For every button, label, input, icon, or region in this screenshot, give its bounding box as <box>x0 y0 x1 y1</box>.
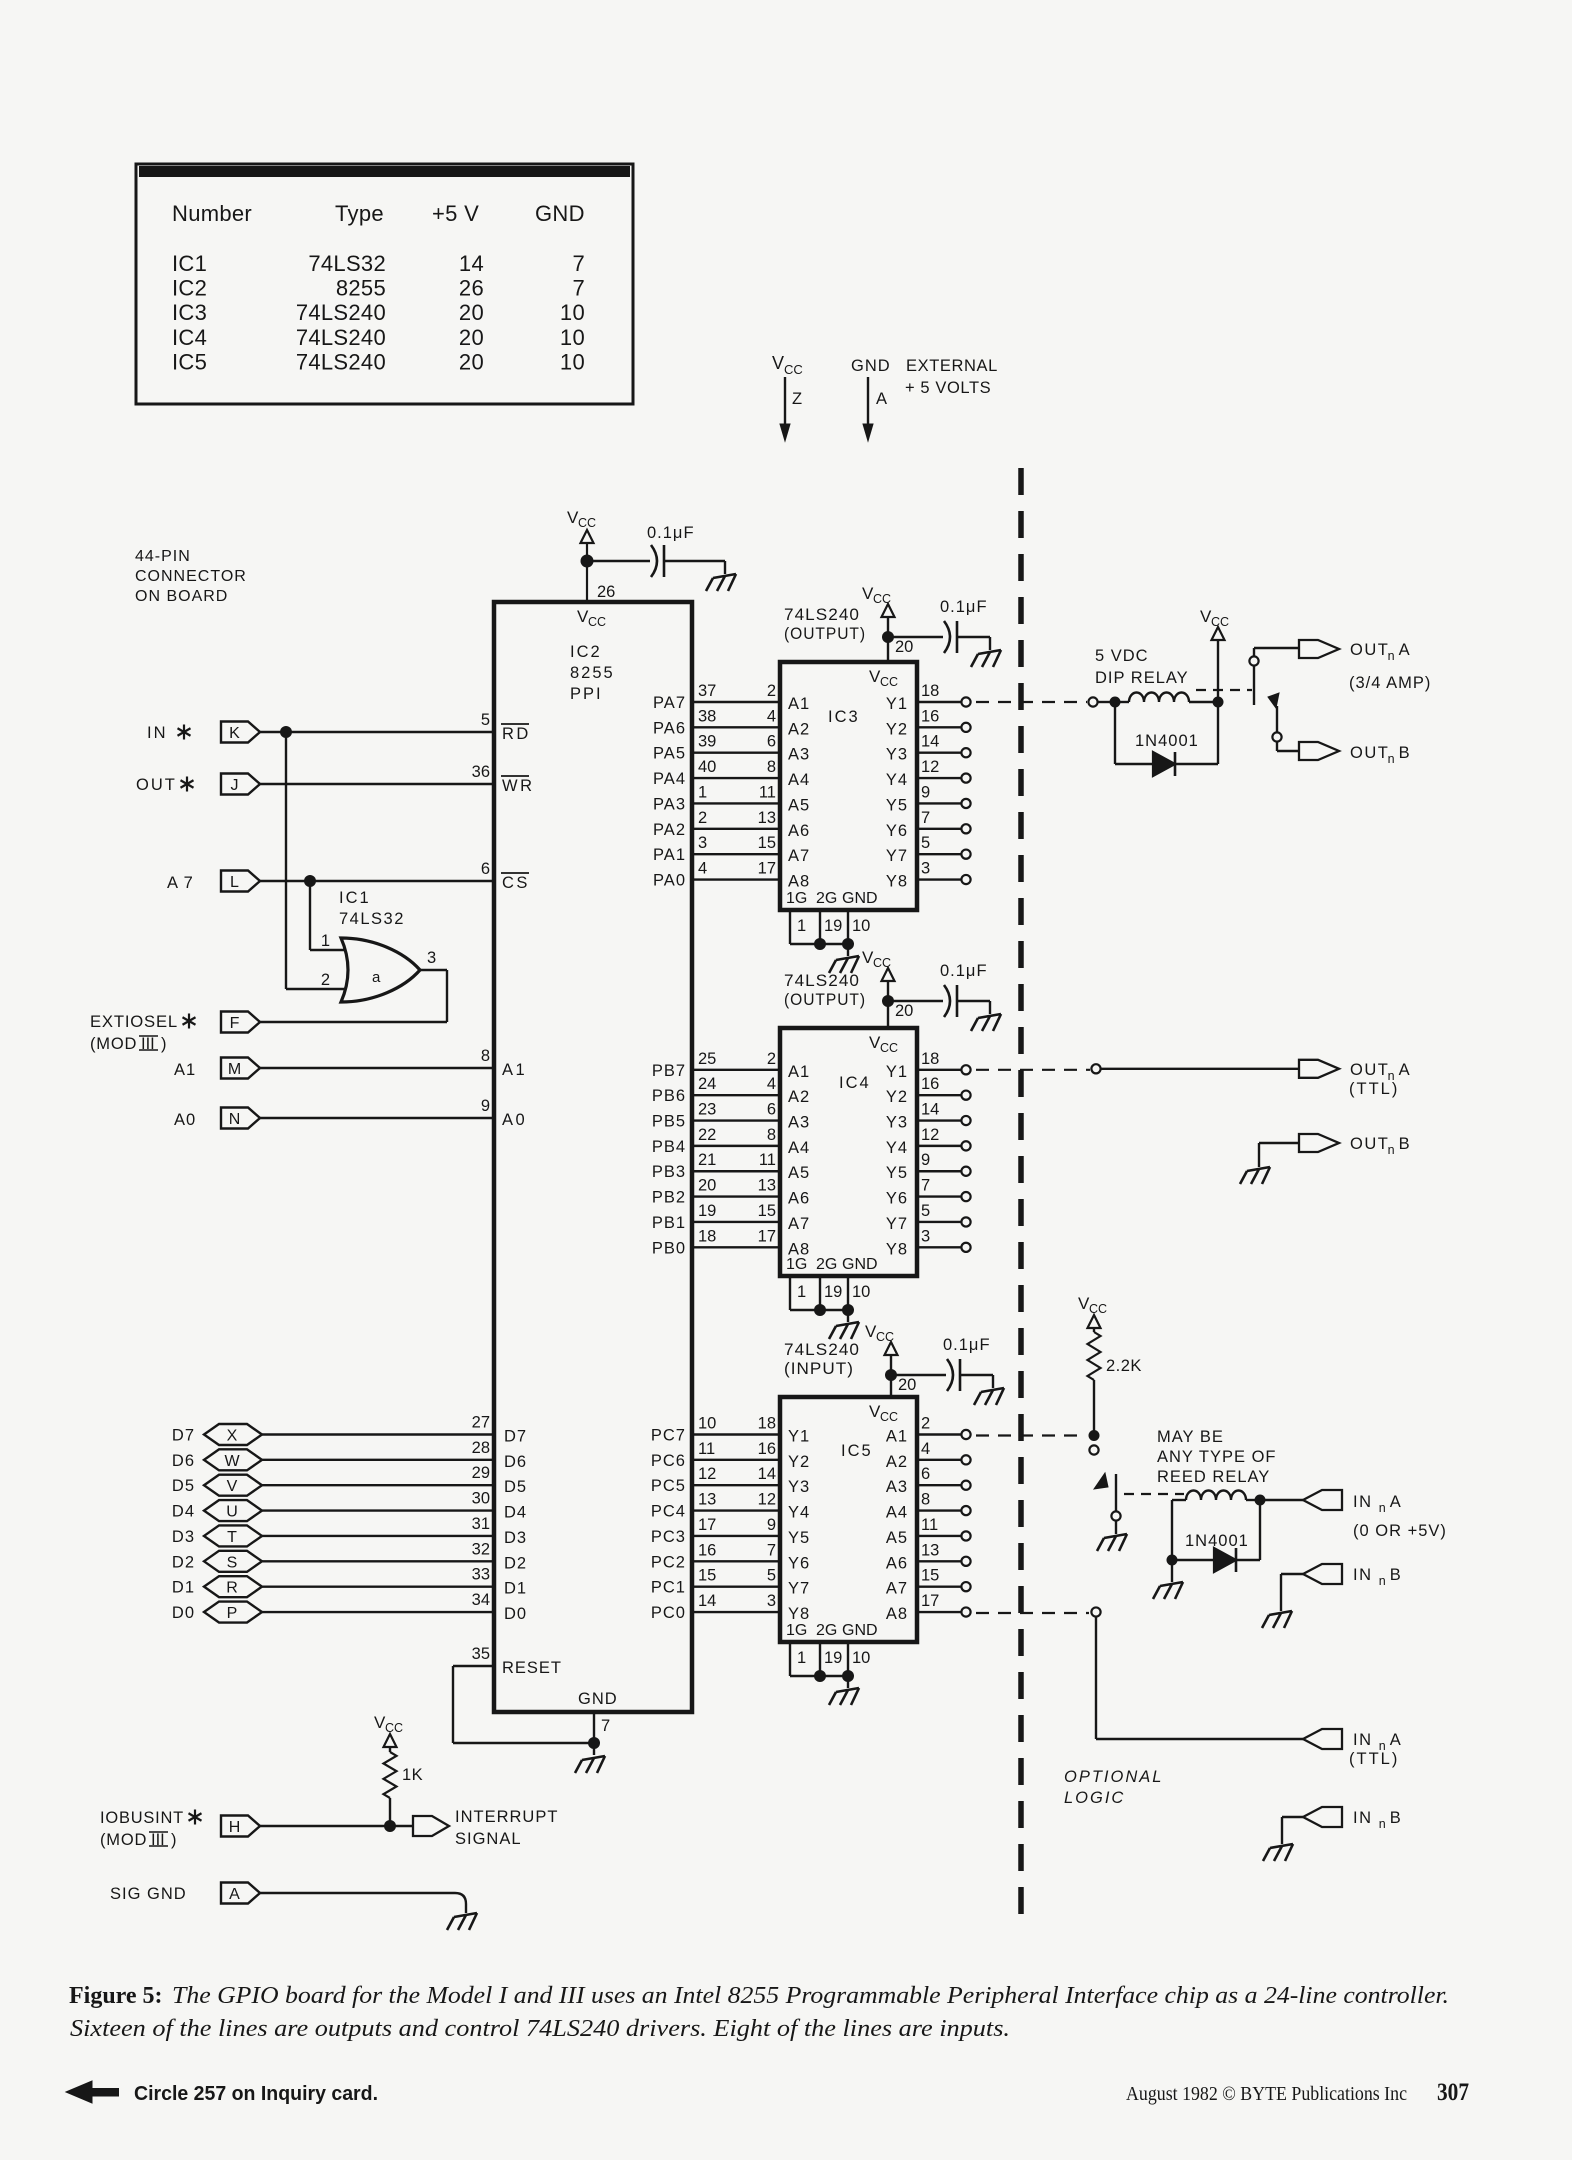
svg-text:R: R <box>226 1580 238 1597</box>
svg-text:Y1: Y1 <box>886 695 908 713</box>
svg-text:A7: A7 <box>886 1580 908 1598</box>
svg-text:Circle 257 on Inquiry card.: Circle 257 on Inquiry card. <box>134 2083 378 2105</box>
svg-text:Y7: Y7 <box>788 1580 810 1598</box>
svg-text:20: 20 <box>459 325 484 350</box>
svg-text:1: 1 <box>321 932 330 950</box>
svg-text:PB3: PB3 <box>652 1163 686 1181</box>
svg-text:5 VDC: 5 VDC <box>1095 647 1149 665</box>
svg-text:18: 18 <box>921 1050 939 1068</box>
svg-text:GND: GND <box>842 890 878 907</box>
svg-text:J: J <box>231 777 239 794</box>
svg-text:CC: CC <box>588 615 606 629</box>
svg-text:ANY TYPE OF: ANY TYPE OF <box>1157 1448 1277 1466</box>
svg-text:CC: CC <box>880 1041 898 1055</box>
svg-text:IOBUSINT: IOBUSINT <box>100 1809 184 1827</box>
svg-text:15: 15 <box>758 1202 776 1220</box>
svg-text:Figure 5:: Figure 5: <box>69 1983 163 2009</box>
svg-text:PC6: PC6 <box>651 1452 686 1470</box>
svg-text:1K: 1K <box>402 1766 423 1784</box>
svg-text:37: 37 <box>698 682 716 700</box>
svg-text:1: 1 <box>797 1649 806 1667</box>
svg-text:9: 9 <box>481 1097 490 1115</box>
svg-text:Y6: Y6 <box>886 1190 908 1208</box>
svg-text:A7: A7 <box>788 847 810 865</box>
svg-text:D3: D3 <box>172 1528 195 1546</box>
svg-text:8255: 8255 <box>570 664 615 682</box>
svg-text:OPTIONAL: OPTIONAL <box>1064 1768 1163 1786</box>
svg-text:19: 19 <box>824 1649 842 1667</box>
svg-text:GND: GND <box>535 201 585 226</box>
svg-text:35: 35 <box>472 1645 490 1663</box>
svg-text:Y3: Y3 <box>886 1114 908 1132</box>
svg-text:6: 6 <box>481 860 490 878</box>
svg-text:(MOD: (MOD <box>100 1831 147 1849</box>
svg-text:39: 39 <box>698 733 716 751</box>
svg-text:T: T <box>227 1529 237 1546</box>
svg-text:7: 7 <box>921 1177 930 1195</box>
svg-text:D3: D3 <box>504 1529 527 1547</box>
svg-text:2: 2 <box>321 971 330 989</box>
svg-text:20: 20 <box>895 1002 913 1020</box>
svg-text:A8: A8 <box>886 1605 908 1623</box>
svg-text:23: 23 <box>698 1101 716 1119</box>
svg-text:H: H <box>229 1819 241 1836</box>
svg-text:10: 10 <box>852 1649 870 1667</box>
svg-text:A3: A3 <box>886 1478 908 1496</box>
svg-text:D5: D5 <box>172 1477 195 1495</box>
svg-text:n: n <box>1388 649 1395 663</box>
svg-text:19: 19 <box>698 1202 716 1220</box>
svg-text:7: 7 <box>767 1541 776 1559</box>
svg-text:PC3: PC3 <box>651 1528 686 1546</box>
svg-text:V: V <box>227 1478 238 1495</box>
svg-text:7: 7 <box>572 276 585 301</box>
svg-text:2G: 2G <box>816 890 837 907</box>
svg-text:Y7: Y7 <box>886 1215 908 1233</box>
svg-text:D6: D6 <box>504 1453 527 1471</box>
svg-text:CC: CC <box>880 1410 898 1424</box>
svg-text:D1: D1 <box>172 1579 195 1597</box>
svg-text:D4: D4 <box>172 1503 195 1521</box>
svg-text:10: 10 <box>560 349 585 374</box>
svg-text:7: 7 <box>921 809 930 827</box>
svg-text:10: 10 <box>852 917 870 935</box>
svg-text:GND: GND <box>842 1622 878 1639</box>
svg-text:W: W <box>224 1453 240 1470</box>
svg-text:16: 16 <box>698 1541 716 1559</box>
svg-text:1G: 1G <box>786 890 807 907</box>
svg-text:5: 5 <box>767 1567 776 1585</box>
svg-text:CONNECTOR: CONNECTOR <box>135 568 247 585</box>
svg-text:GND: GND <box>851 357 891 375</box>
svg-text:A: A <box>876 390 887 408</box>
svg-text:20: 20 <box>459 300 484 325</box>
svg-text:Y8: Y8 <box>886 1240 908 1258</box>
svg-text:B: B <box>1399 1135 1410 1153</box>
svg-text:+5 V: +5 V <box>432 201 479 226</box>
svg-text:22: 22 <box>698 1126 716 1144</box>
svg-text:PC1: PC1 <box>651 1579 686 1597</box>
svg-text:(MOD: (MOD <box>90 1035 137 1053</box>
svg-text:A1: A1 <box>788 695 810 713</box>
svg-text:19: 19 <box>824 1283 842 1301</box>
svg-text:Type: Type <box>335 201 384 226</box>
svg-text:13: 13 <box>698 1491 716 1509</box>
svg-text:21: 21 <box>698 1151 716 1169</box>
svg-text:26: 26 <box>459 276 484 301</box>
svg-text:14: 14 <box>921 1101 939 1119</box>
svg-text:CC: CC <box>1089 1302 1107 1316</box>
svg-text:n: n <box>1388 1143 1395 1157</box>
svg-text:13: 13 <box>758 809 776 827</box>
svg-text:4: 4 <box>921 1440 930 1458</box>
svg-text:ON BOARD: ON BOARD <box>135 588 228 605</box>
svg-text:A: A <box>229 1886 240 1903</box>
svg-text:M: M <box>228 1061 241 1078</box>
svg-text:A8: A8 <box>788 873 810 891</box>
svg-text:Y6: Y6 <box>886 822 908 840</box>
svg-text:EXTIOSEL: EXTIOSEL <box>90 1013 178 1031</box>
svg-text:18: 18 <box>698 1227 716 1245</box>
svg-text:33: 33 <box>472 1566 490 1584</box>
svg-text:D4: D4 <box>504 1504 527 1522</box>
svg-text:8: 8 <box>921 1491 930 1509</box>
svg-text:A5: A5 <box>886 1529 908 1547</box>
svg-text:A2: A2 <box>788 1088 810 1106</box>
svg-text:11: 11 <box>921 1516 938 1534</box>
svg-text:8255: 8255 <box>336 276 386 301</box>
svg-text:26: 26 <box>597 583 615 601</box>
svg-text:B: B <box>1399 744 1410 762</box>
svg-text:A6: A6 <box>788 822 810 840</box>
svg-text:LOGIC: LOGIC <box>1064 1789 1125 1807</box>
svg-text:5: 5 <box>481 711 490 729</box>
svg-text:34: 34 <box>472 1591 490 1609</box>
svg-text:40: 40 <box>698 758 716 776</box>
svg-text:P: P <box>227 1605 238 1622</box>
svg-text:3: 3 <box>767 1592 776 1610</box>
svg-text:PB5: PB5 <box>652 1113 686 1131</box>
svg-text:12: 12 <box>758 1491 776 1509</box>
svg-text:CC: CC <box>1211 615 1229 629</box>
svg-text:10: 10 <box>852 1283 870 1301</box>
svg-text:Y1: Y1 <box>886 1063 908 1081</box>
svg-text:PB0: PB0 <box>652 1239 686 1257</box>
svg-text:13: 13 <box>758 1177 776 1195</box>
svg-text:1N4001: 1N4001 <box>1185 1532 1249 1550</box>
svg-text:D0: D0 <box>172 1604 195 1622</box>
svg-text:PC5: PC5 <box>651 1477 686 1495</box>
svg-text:11: 11 <box>759 1151 776 1169</box>
svg-text:Y2: Y2 <box>788 1453 810 1471</box>
svg-text:18: 18 <box>921 682 939 700</box>
svg-text:2: 2 <box>767 682 776 700</box>
svg-text:6: 6 <box>921 1465 930 1483</box>
svg-text:10: 10 <box>560 300 585 325</box>
svg-text:IN: IN <box>147 724 168 742</box>
svg-text:10: 10 <box>698 1415 716 1433</box>
svg-text:2G: 2G <box>816 1622 837 1639</box>
svg-text:n: n <box>1379 1574 1386 1588</box>
svg-text:a: a <box>372 969 381 986</box>
svg-text:CC: CC <box>880 675 898 689</box>
svg-text:8: 8 <box>767 758 776 776</box>
svg-text:CC: CC <box>784 362 803 377</box>
svg-text:Y4: Y4 <box>788 1504 810 1522</box>
svg-text:74LS240: 74LS240 <box>296 325 386 350</box>
svg-text:N: N <box>229 1111 241 1128</box>
svg-text:CS: CS <box>502 874 530 892</box>
svg-text:PA5: PA5 <box>653 745 686 763</box>
svg-text:PB1: PB1 <box>652 1214 686 1232</box>
svg-text:4: 4 <box>767 707 776 725</box>
svg-text:GND: GND <box>842 1256 878 1273</box>
svg-text:U: U <box>226 1504 238 1521</box>
svg-text:REED RELAY: REED RELAY <box>1157 1468 1270 1486</box>
svg-text:A4: A4 <box>788 1139 810 1157</box>
svg-text:D6: D6 <box>172 1452 195 1470</box>
svg-text:SIGNAL: SIGNAL <box>455 1830 522 1848</box>
svg-text:Y4: Y4 <box>886 1139 908 1157</box>
svg-text:7: 7 <box>601 1717 610 1735</box>
svg-text:1: 1 <box>797 917 806 935</box>
svg-text:16: 16 <box>921 707 939 725</box>
svg-text:OUT: OUT <box>1350 744 1389 762</box>
svg-text:(3/4 AMP): (3/4 AMP) <box>1349 674 1431 692</box>
svg-text:PA7: PA7 <box>653 694 686 712</box>
svg-text:74LS32: 74LS32 <box>308 251 386 276</box>
svg-text:20: 20 <box>895 638 913 656</box>
svg-text:17: 17 <box>758 860 776 878</box>
svg-text:9: 9 <box>921 1151 930 1169</box>
svg-text:Y5: Y5 <box>886 1164 908 1182</box>
svg-text:2G: 2G <box>816 1256 837 1273</box>
svg-text:2: 2 <box>921 1415 930 1433</box>
svg-text:307: 307 <box>1437 2079 1469 2106</box>
svg-text:A4: A4 <box>886 1504 908 1522</box>
svg-text:B: B <box>1390 1566 1401 1584</box>
svg-text:A6: A6 <box>886 1554 908 1572</box>
svg-text:IC2: IC2 <box>570 643 602 661</box>
svg-text:IN: IN <box>1353 1809 1373 1827</box>
svg-text:44-PIN: 44-PIN <box>135 548 191 565</box>
svg-text:A1: A1 <box>886 1428 908 1446</box>
svg-text:IN: IN <box>1353 1493 1373 1511</box>
svg-text:9: 9 <box>921 783 930 801</box>
svg-text:PC2: PC2 <box>651 1553 686 1571</box>
svg-text:D1: D1 <box>504 1580 527 1598</box>
svg-text:3: 3 <box>427 949 436 967</box>
svg-text:74LS240: 74LS240 <box>296 300 386 325</box>
svg-text:IC3: IC3 <box>828 708 860 726</box>
svg-text:n: n <box>1388 752 1395 766</box>
svg-text:Y8: Y8 <box>886 873 908 891</box>
svg-text:7: 7 <box>572 251 585 276</box>
svg-text:RD: RD <box>502 725 531 743</box>
svg-text:1N4001: 1N4001 <box>1135 732 1199 750</box>
svg-text:12: 12 <box>921 758 939 776</box>
svg-text:24: 24 <box>698 1075 716 1093</box>
svg-text:4: 4 <box>767 1075 776 1093</box>
svg-text:WR: WR <box>502 777 535 795</box>
svg-text:3: 3 <box>921 860 930 878</box>
svg-text:1: 1 <box>698 783 707 801</box>
svg-text:D2: D2 <box>504 1554 527 1572</box>
svg-text:5: 5 <box>921 1202 930 1220</box>
svg-text:L: L <box>230 874 239 891</box>
svg-text:(OUTPUT): (OUTPUT) <box>784 625 866 643</box>
svg-text:SIG GND: SIG GND <box>110 1885 187 1903</box>
svg-text:10: 10 <box>560 325 585 350</box>
svg-text:1G: 1G <box>786 1256 807 1273</box>
svg-text:3: 3 <box>921 1227 930 1245</box>
svg-text:30: 30 <box>472 1490 490 1508</box>
svg-text:IC1: IC1 <box>172 251 207 276</box>
svg-text:IN: IN <box>1353 1731 1373 1749</box>
svg-text:A: A <box>1399 641 1410 659</box>
svg-text:20: 20 <box>698 1177 716 1195</box>
svg-text:Sixteen of the lines are outpu: Sixteen of the lines are outputs and con… <box>70 2016 1010 2042</box>
svg-text:14: 14 <box>459 251 484 276</box>
svg-text:17: 17 <box>921 1592 939 1610</box>
svg-text:4: 4 <box>698 860 707 878</box>
svg-text:A1: A1 <box>502 1061 527 1079</box>
svg-text:14: 14 <box>698 1592 716 1610</box>
svg-text:PC0: PC0 <box>651 1604 686 1622</box>
svg-text:PB6: PB6 <box>652 1087 686 1105</box>
svg-text:PA1: PA1 <box>653 846 686 864</box>
svg-text:16: 16 <box>921 1075 939 1093</box>
svg-text:Y5: Y5 <box>788 1529 810 1547</box>
svg-text:OUT: OUT <box>1350 1135 1389 1153</box>
svg-text:17: 17 <box>698 1516 716 1534</box>
svg-text:IC3: IC3 <box>172 300 207 325</box>
svg-text:(INPUT): (INPUT) <box>784 1360 854 1378</box>
svg-text:IC4: IC4 <box>172 325 207 350</box>
svg-text:PB7: PB7 <box>652 1062 686 1080</box>
svg-text:Y3: Y3 <box>788 1478 810 1496</box>
svg-text:A0: A0 <box>174 1111 196 1129</box>
svg-text:IC4: IC4 <box>839 1074 871 1092</box>
svg-text:18: 18 <box>758 1415 776 1433</box>
svg-text:INTERRUPT: INTERRUPT <box>455 1808 558 1826</box>
svg-text:13: 13 <box>921 1541 939 1559</box>
svg-text:D7: D7 <box>172 1427 195 1445</box>
svg-text:9: 9 <box>767 1516 776 1534</box>
svg-text:): ) <box>171 1831 177 1849</box>
svg-text:6: 6 <box>767 733 776 751</box>
svg-text:0.1μF: 0.1μF <box>647 524 695 542</box>
svg-text:14: 14 <box>921 733 939 751</box>
svg-text:n: n <box>1379 1501 1386 1515</box>
svg-text:A: A <box>1390 1493 1401 1511</box>
svg-text:EXTERNAL: EXTERNAL <box>906 357 998 375</box>
svg-text:36: 36 <box>472 763 490 781</box>
svg-text:Y2: Y2 <box>886 720 908 738</box>
svg-text:A5: A5 <box>788 1164 810 1182</box>
svg-text:D7: D7 <box>504 1428 527 1446</box>
svg-text:A: A <box>1399 1061 1410 1079</box>
svg-text:IC5: IC5 <box>172 349 207 374</box>
svg-text:14: 14 <box>758 1465 776 1483</box>
svg-text:5: 5 <box>921 834 930 852</box>
svg-text:Y5: Y5 <box>886 796 908 814</box>
svg-text:31: 31 <box>472 1515 490 1533</box>
svg-text:11: 11 <box>759 783 776 801</box>
svg-text:15: 15 <box>921 1567 939 1585</box>
svg-text:A2: A2 <box>886 1453 908 1471</box>
svg-text:A: A <box>1390 1731 1401 1749</box>
svg-text:16: 16 <box>758 1440 776 1458</box>
svg-text:PA0: PA0 <box>653 872 686 890</box>
svg-text:A 7: A 7 <box>167 874 194 892</box>
svg-text:8: 8 <box>767 1126 776 1144</box>
svg-text:74LS32: 74LS32 <box>339 910 405 928</box>
svg-text:(OUTPUT): (OUTPUT) <box>784 991 866 1009</box>
svg-text:MAY BE: MAY BE <box>1157 1428 1224 1446</box>
svg-text:Y7: Y7 <box>886 847 908 865</box>
svg-text:IC1: IC1 <box>339 889 371 907</box>
svg-text:A0: A0 <box>502 1111 527 1129</box>
svg-text:17: 17 <box>758 1227 776 1245</box>
svg-text:Y3: Y3 <box>886 746 908 764</box>
svg-text:A2: A2 <box>788 720 810 738</box>
svg-text:3: 3 <box>698 834 707 852</box>
svg-text:Y4: Y4 <box>886 771 908 789</box>
svg-text:RESET: RESET <box>502 1659 562 1677</box>
svg-text:15: 15 <box>698 1567 716 1585</box>
svg-text:A1: A1 <box>174 1061 196 1079</box>
svg-text:The GPIO board for the Model I: The GPIO board for the Model I and III u… <box>172 1983 1449 2009</box>
svg-text:(TTL): (TTL) <box>1349 1750 1399 1768</box>
svg-text:0.1μF: 0.1μF <box>940 598 988 616</box>
svg-text:12: 12 <box>698 1465 716 1483</box>
svg-text:IC2: IC2 <box>172 276 207 301</box>
svg-text:D2: D2 <box>172 1553 195 1571</box>
svg-text:0.1μF: 0.1μF <box>943 1336 991 1354</box>
svg-text:A6: A6 <box>788 1190 810 1208</box>
svg-text:PPI: PPI <box>570 685 603 703</box>
svg-text:74LS240: 74LS240 <box>784 606 860 624</box>
svg-text:OUT: OUT <box>1350 641 1389 659</box>
svg-text:GND: GND <box>578 1690 618 1708</box>
svg-text:12: 12 <box>921 1126 939 1144</box>
svg-text:A4: A4 <box>788 771 810 789</box>
svg-text:August 1982 © BYTE Publication: August 1982 © BYTE Publications Inc <box>1126 2083 1407 2105</box>
svg-text:38: 38 <box>698 707 716 725</box>
svg-text:IN: IN <box>1353 1566 1373 1584</box>
svg-text:IC5: IC5 <box>841 1442 873 1460</box>
svg-text:PA4: PA4 <box>653 770 686 788</box>
svg-text:1: 1 <box>797 1283 806 1301</box>
svg-text:0.1μF: 0.1μF <box>940 962 988 980</box>
svg-text:Y1: Y1 <box>788 1428 810 1446</box>
svg-text:PC7: PC7 <box>651 1427 686 1445</box>
svg-text:2.2K: 2.2K <box>1106 1357 1142 1375</box>
svg-text:Number: Number <box>172 201 252 226</box>
svg-text:X: X <box>227 1428 238 1445</box>
svg-text:25: 25 <box>698 1050 716 1068</box>
svg-text:F: F <box>230 1015 240 1032</box>
svg-text:Y6: Y6 <box>788 1554 810 1572</box>
svg-text:6: 6 <box>767 1101 776 1119</box>
svg-text:15: 15 <box>758 834 776 852</box>
svg-text:A3: A3 <box>788 1114 810 1132</box>
svg-text:8: 8 <box>481 1047 490 1065</box>
svg-text:27: 27 <box>472 1414 490 1432</box>
svg-text:Y8: Y8 <box>788 1605 810 1623</box>
svg-text:S: S <box>227 1554 238 1571</box>
